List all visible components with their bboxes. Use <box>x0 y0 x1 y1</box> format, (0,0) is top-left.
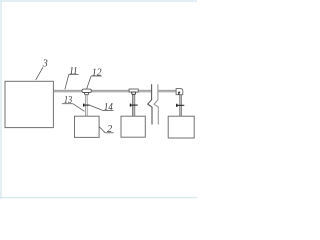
pipe 11 (horizontal double-line, right segment after break) <box>158 90 176 92</box>
middle tee fitting on pipe <box>129 89 138 94</box>
box 2 (first lower box) <box>75 116 100 137</box>
middle box <box>121 116 145 137</box>
vertical pipe 13 (below fitting 12) <box>85 94 87 116</box>
leader for label 3 <box>36 67 43 80</box>
middle vertical pipe (gray filled) <box>132 94 134 116</box>
svg-text:2: 2 <box>107 124 112 135</box>
elbow fitting (pipe end, top right) <box>176 89 183 95</box>
valve 14 (tap on first vertical pipe) <box>83 104 90 107</box>
leader and underline for label 11 <box>65 75 79 90</box>
right box <box>168 116 194 138</box>
leader and underline for label 13 <box>62 104 85 112</box>
pipe 11 (horizontal double-line, left segment) <box>53 90 151 92</box>
right valve (tap on right vertical pipe) <box>176 104 184 107</box>
middle valve (tap on middle vertical pipe) <box>130 104 138 107</box>
page border frame <box>0 0 197 199</box>
leader and underline for label 2 <box>99 126 114 132</box>
pipe break symbol, left line <box>148 84 152 124</box>
leader and underline for label 14 <box>90 105 114 110</box>
svg-text:12: 12 <box>92 67 102 78</box>
fitting 12 (saddle clamp on pipe) <box>82 89 91 95</box>
leader and underline for label 12 <box>87 76 102 89</box>
right vertical pipe (gray filled) <box>180 95 182 117</box>
box 3 (main unit) <box>5 81 53 127</box>
svg-text:3: 3 <box>42 59 48 70</box>
pipe break symbol, right line <box>154 84 158 124</box>
svg-text:11: 11 <box>69 66 77 77</box>
svg-text:14: 14 <box>104 102 113 113</box>
svg-text:13: 13 <box>64 95 72 106</box>
